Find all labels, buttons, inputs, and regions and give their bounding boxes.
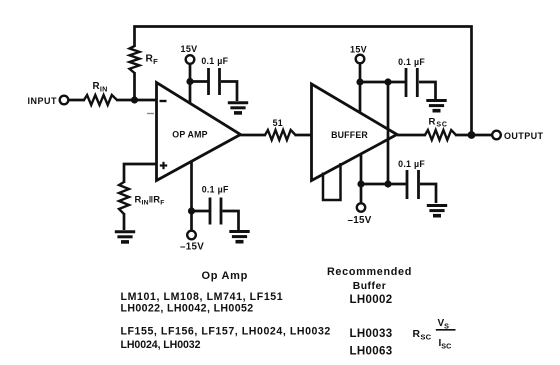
svg-text:LH0024, LH0032: LH0024, LH0032 bbox=[121, 339, 201, 351]
svg-text:0.1 µF: 0.1 µF bbox=[202, 185, 229, 195]
svg-text:LH0033: LH0033 bbox=[350, 328, 393, 340]
svg-text:BUFFER: BUFFER bbox=[331, 130, 368, 140]
svg-text:0.1 µF: 0.1 µF bbox=[201, 56, 228, 66]
svg-text:LM101, LM108, LM741, LF151: LM101, LM108, LM741, LF151 bbox=[121, 291, 284, 303]
svg-text:INPUT: INPUT bbox=[28, 96, 58, 106]
svg-text:0.1 µF: 0.1 µF bbox=[398, 159, 425, 169]
svg-text:LF155, LF156, LF157, LH0024, L: LF155, LF156, LF157, LH0024, LH0032 bbox=[121, 325, 331, 337]
svg-text:–15V: –15V bbox=[180, 242, 204, 253]
svg-text:–15V: –15V bbox=[347, 215, 371, 226]
svg-text:OUTPUT: OUTPUT bbox=[504, 131, 544, 141]
svg-text:15V: 15V bbox=[350, 44, 367, 54]
svg-text:Buffer: Buffer bbox=[353, 281, 387, 292]
svg-text:Op Amp: Op Amp bbox=[202, 270, 249, 282]
svg-text:LH0022, LH0042, LH0052: LH0022, LH0042, LH0052 bbox=[121, 303, 254, 315]
svg-text:LH0063: LH0063 bbox=[350, 346, 393, 358]
svg-text:LH0002: LH0002 bbox=[350, 294, 393, 306]
svg-text:0.1 µF: 0.1 µF bbox=[398, 57, 425, 67]
svg-text:51: 51 bbox=[273, 118, 283, 128]
svg-text:15V: 15V bbox=[181, 44, 198, 54]
svg-text:Recommended: Recommended bbox=[327, 266, 412, 278]
svg-text:OP AMP: OP AMP bbox=[172, 130, 207, 140]
